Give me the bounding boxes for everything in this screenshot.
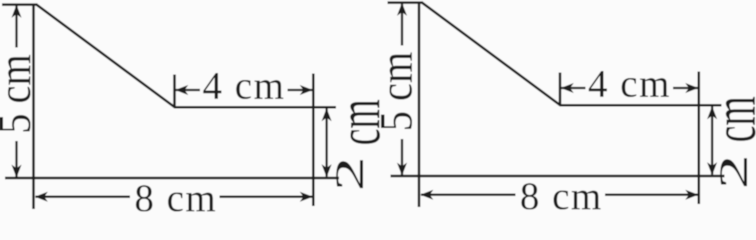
figure 1 extension line at slant bottom for 4 cm dimension xyxy=(173,75,176,108)
figure 1 dimension line 5 cm upper segment xyxy=(15,6,17,48)
figure 2 bottom edge (8 cm) with extensions for 5 cm and 2 cm dimensions xyxy=(391,175,725,178)
figure 1 arrowhead 8 cm left xyxy=(35,192,48,202)
figure 2 arrowhead 8 cm right xyxy=(685,190,698,200)
figure 1 slanted edge xyxy=(37,5,175,108)
svg-text:8 cm: 8 cm xyxy=(520,175,603,216)
figure 2 middle horizontal edge (4 cm) with right extension for 2 cm dimension xyxy=(560,104,722,107)
figure 2 arrowhead 4 cm left xyxy=(561,83,574,93)
svg-text:5 cm: 5 cm xyxy=(0,54,41,134)
figure 2 arrowhead 8 cm left xyxy=(420,190,433,200)
figure 2 arrowhead 4 cm right xyxy=(685,83,698,93)
svg-text:2: 2 xyxy=(712,154,756,189)
figure 2 dimension line 8 cm right segment xyxy=(605,194,698,196)
figure 2 extension line at slant bottom for 4 cm dimension xyxy=(559,73,562,106)
figure 2 arrowhead 5 cm up xyxy=(397,3,407,16)
svg-text:2: 2 xyxy=(328,156,372,191)
figure 2 arrowhead 2 cm down xyxy=(707,162,717,175)
figure 1 dimension line 8 cm left segment xyxy=(36,196,131,198)
figure 1 dimension line 4 cm right segment xyxy=(288,89,313,91)
figure 1 left vertical edge with extension for 8 cm dimension xyxy=(32,4,35,209)
figure 2 dimension line 4 cm left segment xyxy=(561,87,586,89)
svg-text:cm: cm xyxy=(701,96,756,142)
figure 1 dimension line 4 cm left segment xyxy=(176,89,201,91)
figure 1 arrowhead 8 cm right xyxy=(300,192,313,202)
figure 2 dimension line 5 cm lower segment xyxy=(401,139,403,175)
figure 1 arrowhead 4 cm left xyxy=(175,85,188,95)
figure 2 slanted edge xyxy=(422,3,560,106)
figure 1 arrowhead 2 cm up xyxy=(322,108,332,121)
figure 1 bottom edge (8 cm) with extensions for 5 cm and 2 cm dimensions xyxy=(5,177,339,180)
figure 2 arrowhead 5 cm down xyxy=(397,163,407,176)
figure 1 dimension line 8 cm right segment xyxy=(220,196,313,198)
svg-text:4 cm: 4 cm xyxy=(203,65,286,108)
figure 2 dimension line 8 cm left segment xyxy=(421,194,516,196)
figure 2 right vertical edge with extensions for 4 cm and 8 cm dimensions xyxy=(698,72,701,205)
figure 1 dimension line 2 cm xyxy=(325,109,327,177)
figure 2 dimension line 2 cm xyxy=(711,107,713,175)
figure 1 arrowhead 4 cm right xyxy=(300,85,313,95)
figure 2 left vertical edge with extension for 8 cm dimension xyxy=(418,2,421,207)
figure 1 top edge with left extension for 5 cm dimension xyxy=(2,3,38,6)
svg-text:4 cm: 4 cm xyxy=(588,63,671,106)
figure 2 arrowhead 2 cm up xyxy=(707,106,717,119)
figure 1 middle horizontal edge (4 cm) with right extension for 2 cm dimension xyxy=(174,106,336,109)
figure 1 arrowhead 2 cm down xyxy=(322,164,332,177)
figure 1 arrowhead 5 cm down xyxy=(12,165,22,178)
figure 1 arrowhead 5 cm up xyxy=(12,5,22,18)
svg-text:5 cm: 5 cm xyxy=(371,52,422,132)
svg-text:8 cm: 8 cm xyxy=(134,177,217,216)
figure 2 top edge with left extension for 5 cm dimension xyxy=(388,1,424,4)
figure 1 dimension line 5 cm lower segment xyxy=(15,141,17,177)
figure 2 dimension line 4 cm right segment xyxy=(673,87,698,89)
figure 2 dimension line 5 cm upper segment xyxy=(401,4,403,46)
figure 1 right vertical edge with extensions for 4 cm and 8 cm dimensions xyxy=(312,74,315,207)
